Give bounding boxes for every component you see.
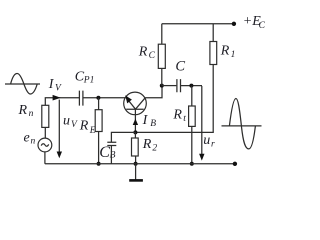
wire CB to rail [110, 146, 112, 164]
resistor RE [95, 110, 102, 132]
resistor R2 lead [134, 132, 136, 138]
svg-text:C: C [259, 21, 266, 31]
output sine curve [229, 98, 255, 148]
input sine symbol curve [11, 73, 38, 94]
svg-text:u: u [203, 133, 210, 148]
node N7 dot [190, 162, 194, 166]
collector wire to N2 [145, 86, 162, 98]
transistor base bar [126, 108, 144, 110]
capacitor C [177, 79, 181, 92]
resistor Rt lead top [191, 86, 193, 106]
svg-text:t: t [183, 114, 186, 124]
svg-text:R: R [142, 137, 152, 152]
svg-text:R: R [220, 44, 230, 59]
svg-text:R: R [79, 118, 89, 133]
arrow IV current [53, 95, 61, 101]
terminal dot +EC [232, 22, 236, 26]
source en circle [38, 138, 52, 152]
resistor R1 [210, 42, 217, 65]
svg-text:P1: P1 [83, 75, 95, 85]
wire base node to CB [111, 132, 135, 142]
resistor Rt lead bottom [191, 126, 193, 163]
source en tilde [41, 144, 49, 147]
svg-text:n: n [29, 109, 34, 119]
transistor collector diagonal [136, 98, 146, 109]
node N3 dot [189, 84, 193, 88]
terminal dot bottom right [233, 162, 237, 166]
transistor emitter with arrow [127, 99, 135, 109]
wire N2 to C [162, 85, 177, 87]
resistor RC [158, 44, 165, 68]
wire RE to rail [98, 132, 100, 164]
node N4 dot [133, 130, 137, 134]
resistor R2 [132, 138, 139, 156]
svg-text:C: C [149, 51, 156, 61]
svg-text:2: 2 [152, 143, 157, 153]
input sine symbol baseline [5, 83, 40, 85]
svg-text:n: n [31, 136, 36, 146]
top rail +EC [162, 23, 234, 25]
wire source to rail [44, 152, 46, 164]
svg-text:1: 1 [231, 50, 236, 60]
svg-text:E: E [89, 126, 96, 136]
ground [135, 164, 137, 181]
wire R2 to rail [135, 156, 137, 164]
resistor Rn [42, 105, 49, 127]
transistor Q circle [124, 92, 147, 115]
svg-text:u: u [63, 113, 70, 128]
svg-text:R: R [18, 103, 28, 118]
capacitor CP1 [79, 91, 83, 106]
wire R1 to base node [135, 65, 213, 133]
svg-text:r: r [211, 139, 215, 149]
output sine baseline [222, 125, 262, 127]
node N5 dot [97, 162, 101, 166]
arrow ur [201, 86, 203, 156]
svg-text:C: C [99, 144, 110, 161]
capacitor CB [107, 142, 116, 145]
resistor RC leads [161, 24, 163, 86]
arrow uV [58, 100, 60, 154]
svg-text:R: R [172, 108, 182, 123]
resistor Rt [189, 106, 196, 126]
arrow IB [133, 119, 138, 125]
svg-text:B: B [150, 119, 156, 129]
node N6 dot [134, 162, 138, 166]
resistor R1 lead top [212, 24, 214, 42]
wire Rn to source [44, 127, 46, 138]
wire C to output [181, 85, 202, 87]
base lead [134, 109, 136, 132]
wire N1 to RE [98, 98, 100, 110]
node N2 dot [160, 84, 164, 88]
svg-text:R: R [138, 44, 148, 59]
node N1 dot [96, 96, 100, 100]
bottom rail [45, 163, 235, 165]
wire input top [45, 98, 125, 106]
svg-text:B: B [110, 151, 116, 161]
svg-text:C: C [175, 58, 185, 74]
svg-text:e: e [24, 131, 30, 146]
